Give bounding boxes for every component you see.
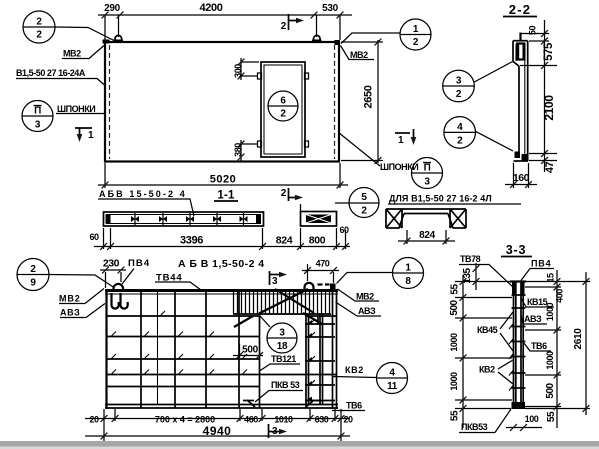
svg-text:1: 1 <box>413 24 419 35</box>
svg-text:1-1: 1-1 <box>217 190 235 202</box>
svg-text:КВ2: КВ2 <box>479 365 495 375</box>
svg-text:2: 2 <box>30 264 36 275</box>
svg-text:380: 380 <box>233 143 243 157</box>
svg-text:КВ45: КВ45 <box>477 325 498 335</box>
svg-text:3: 3 <box>424 177 430 188</box>
svg-text:3: 3 <box>35 120 41 131</box>
svg-text:290: 290 <box>104 3 120 14</box>
svg-text:ТВ6: ТВ6 <box>346 401 362 411</box>
svg-text:4: 4 <box>389 368 395 379</box>
svg-text:КВ15: КВ15 <box>527 297 548 307</box>
svg-text:АВЗ: АВЗ <box>60 308 80 318</box>
svg-text:ДЛЯ В1,5-50 27 16-2 4Л: ДЛЯ В1,5-50 27 16-2 4Л <box>389 194 492 204</box>
svg-text:20: 20 <box>89 415 99 425</box>
svg-text:60: 60 <box>339 225 349 235</box>
svg-text:3396: 3396 <box>180 235 203 247</box>
svg-text:АБВ 15-50-2 4: АБВ 15-50-2 4 <box>99 189 187 199</box>
svg-text:18: 18 <box>277 341 288 352</box>
svg-text:2: 2 <box>413 37 419 48</box>
svg-text:55: 55 <box>546 411 557 422</box>
svg-text:ПВ4: ПВ4 <box>128 258 150 269</box>
svg-text:50: 50 <box>528 26 538 36</box>
svg-text:МВ2: МВ2 <box>59 294 81 304</box>
svg-text:2610: 2610 <box>573 328 584 350</box>
svg-text:5: 5 <box>361 192 367 203</box>
svg-text:700 х 4 = 2800: 700 х 4 = 2800 <box>155 415 215 425</box>
svg-text:500: 500 <box>242 345 258 356</box>
svg-text:2: 2 <box>280 109 286 120</box>
svg-text:2: 2 <box>36 17 42 28</box>
svg-text:4: 4 <box>457 122 463 133</box>
svg-text:1000: 1000 <box>449 333 459 352</box>
svg-text:160: 160 <box>513 172 530 184</box>
svg-text:МВ2: МВ2 <box>350 50 368 60</box>
svg-text:55: 55 <box>450 284 461 295</box>
svg-text:ТВ6: ТВ6 <box>531 341 547 351</box>
svg-text:МВ2: МВ2 <box>63 49 81 59</box>
svg-text:2100: 2100 <box>542 95 556 121</box>
svg-text:824: 824 <box>276 235 293 247</box>
svg-text:2-2: 2-2 <box>509 2 531 17</box>
svg-text:2: 2 <box>361 206 367 217</box>
svg-text:11: 11 <box>387 381 398 392</box>
svg-text:500: 500 <box>449 299 460 315</box>
svg-text:АВЗ: АВЗ <box>358 306 376 316</box>
svg-text:1010: 1010 <box>274 415 293 425</box>
svg-text:АВЗ: АВЗ <box>524 314 542 324</box>
svg-text:3: 3 <box>272 426 278 437</box>
svg-text:460: 460 <box>244 415 258 425</box>
svg-text:55: 55 <box>450 410 461 421</box>
svg-text:4200: 4200 <box>199 2 222 14</box>
svg-text:ПВ4: ПВ4 <box>531 259 551 269</box>
svg-text:1: 1 <box>88 130 94 141</box>
svg-text:П: П <box>34 106 41 117</box>
svg-text:47: 47 <box>544 162 556 174</box>
svg-text:2: 2 <box>456 89 462 100</box>
svg-text:8: 8 <box>405 276 411 287</box>
svg-text:2: 2 <box>457 136 463 147</box>
svg-text:ТВ78: ТВ78 <box>460 254 481 264</box>
svg-text:400: 400 <box>555 289 565 303</box>
svg-text:2: 2 <box>36 30 42 41</box>
svg-text:15: 15 <box>546 273 556 283</box>
svg-text:575: 575 <box>543 42 555 61</box>
svg-text:2: 2 <box>281 21 287 32</box>
svg-text:1: 1 <box>398 135 404 146</box>
svg-text:1000: 1000 <box>449 372 459 391</box>
svg-text:630: 630 <box>315 415 329 425</box>
svg-text:3: 3 <box>272 276 278 287</box>
svg-text:3-3: 3-3 <box>506 243 526 257</box>
svg-text:КВ2: КВ2 <box>345 365 364 375</box>
svg-text:3: 3 <box>279 328 285 339</box>
svg-text:9: 9 <box>30 278 36 289</box>
svg-text:300: 300 <box>233 64 243 78</box>
svg-text:А Б В 1,5-50-2 4: А Б В 1,5-50-2 4 <box>178 258 265 270</box>
svg-text:В1,5-50 27 16-24А: В1,5-50 27 16-24А <box>16 68 86 78</box>
svg-text:60: 60 <box>89 232 99 242</box>
svg-text:П: П <box>424 163 431 174</box>
svg-text:1: 1 <box>405 263 411 274</box>
svg-text:3: 3 <box>456 76 462 87</box>
svg-text:100: 100 <box>525 414 539 424</box>
svg-text:ПКВ53: ПКВ53 <box>461 422 488 432</box>
svg-text:МВ2: МВ2 <box>356 292 374 302</box>
svg-text:ШПОНКИ: ШПОНКИ <box>57 104 95 114</box>
svg-text:2650: 2650 <box>363 85 375 108</box>
svg-text:5020: 5020 <box>210 174 236 186</box>
svg-text:20: 20 <box>343 415 353 425</box>
svg-text:470: 470 <box>316 259 330 269</box>
svg-text:800: 800 <box>309 235 326 247</box>
svg-text:230: 230 <box>103 258 120 270</box>
svg-text:6: 6 <box>280 96 286 107</box>
svg-text:4940: 4940 <box>203 424 232 438</box>
svg-text:ПКВ 53: ПКВ 53 <box>271 380 300 390</box>
svg-text:500: 500 <box>545 382 556 398</box>
svg-text:824: 824 <box>419 230 435 241</box>
svg-text:ТВ121: ТВ121 <box>271 354 296 364</box>
svg-text:530: 530 <box>322 3 338 14</box>
svg-text:1000: 1000 <box>545 351 555 370</box>
svg-text:2: 2 <box>281 188 287 199</box>
